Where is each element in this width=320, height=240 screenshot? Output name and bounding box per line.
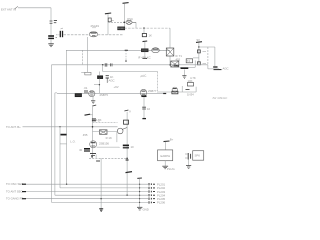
wire y84.7 stub [94, 84, 99, 86]
svg-text:IF 455 KC: IF 455 KC [138, 56, 151, 60]
svg-text:9V: 9V [197, 38, 201, 42]
label faint agc [140, 73, 147, 78]
svg-text:B+: B+ [170, 138, 174, 142]
dark diode blob detector [181, 67, 189, 69]
transistor Q6 [90, 141, 97, 148]
junction x127 row4 [126, 194, 128, 196]
wire C2 to ground [50, 39, 52, 43]
label above y122 wire [95, 118, 101, 122]
resistor R8 [75, 94, 81, 97]
capacitor C6 [84, 86, 88, 93]
wire x102.7 riser [102, 65, 104, 72]
wire y122.4 [93, 121, 118, 123]
power tap bar B4 [196, 38, 202, 42]
connector bars speaker [185, 153, 191, 160]
ground Q3 [91, 101, 95, 104]
blob below junction x127 [126, 159, 129, 161]
wire top horizontal [18, 7, 51, 9]
wire spk conn down [188, 160, 190, 166]
junction y28 [143, 27, 144, 28]
label Q4 [148, 89, 157, 93]
label osc text [83, 133, 88, 137]
wire row6 [52, 201, 149, 203]
wire q2 to T1 [160, 49, 171, 51]
driver box T3 [187, 76, 195, 86]
svg-text:455: 455 [83, 133, 88, 137]
wire q3 ground drop [92, 97, 94, 101]
cap bar below R3 [143, 57, 148, 59]
power tap bar B3 [143, 40, 148, 43]
ground earphone [162, 166, 168, 169]
label mid texts [109, 75, 119, 89]
wire antenna vertical [50, 8, 52, 20]
wire x144 down [143, 97, 145, 119]
dark tick on y50 line [125, 49, 128, 51]
ground detector [182, 76, 186, 79]
wire x101.1 vertical [100, 158, 102, 208]
svg-text:TO GANG FR: TO GANG FR [6, 197, 23, 201]
resistor R1 [108, 18, 114, 22]
svg-text:L.O.: L.O. [70, 140, 76, 144]
svg-text:TO OSC SEC: TO OSC SEC [6, 182, 23, 186]
wire y127 long [23, 126, 118, 128]
pin blob row3 [22, 191, 26, 193]
wire y57.9 left [193, 57, 199, 59]
wire x208 vertical [207, 47, 209, 65]
wire C3 to Q1 [64, 34, 89, 36]
svg-text:TO ANT. B+: TO ANT. B+ [6, 125, 21, 129]
wire mid y71.5 [103, 71, 158, 73]
wire row2 [60, 187, 148, 189]
elbow x54.9 row4 [54, 93, 56, 195]
power tap bar left of x92.5 [85, 114, 91, 115]
wire y28 row [117, 27, 170, 29]
capacitor C1 trimmer [50, 21, 57, 24]
elbow x60 row2 [59, 127, 61, 188]
junction blob x144 bottom [142, 118, 146, 120]
wire main row y64.8 [52, 64, 208, 66]
wire tap to box [165, 142, 167, 150]
wire y147.1 [97, 146, 120, 148]
wire right top elbow [169, 28, 171, 48]
resistor R11 [124, 120, 129, 124]
svg-text:2SB77: 2SB77 [148, 89, 157, 93]
capacitor blob on x92.5 [92, 119, 100, 123]
svg-text:JW 4394LF: JW 4394LF [212, 96, 228, 100]
wire det row y67.3 [180, 66, 196, 68]
junction right y47 [198, 46, 199, 47]
wire y131.6 [93, 131, 117, 133]
svg-text:2SB156: 2SB156 [99, 141, 109, 145]
svg-text:SPK: SPK [195, 154, 201, 158]
wire x126 stub [125, 50, 127, 61]
svg-text:AGC: AGC [223, 67, 229, 71]
electrolytic C7 [141, 95, 146, 97]
label Q1 [91, 24, 100, 28]
label top of connector bus [167, 167, 175, 171]
power tap bar B1 [105, 12, 111, 15]
wire Q1 to right [98, 34, 124, 36]
svg-text:10: 10 [147, 107, 151, 111]
svg-text:EARPH: EARPH [161, 154, 171, 158]
ground bus bottom [137, 207, 149, 211]
wire row1 [26, 183, 148, 185]
stub left of R6 [81, 71, 85, 73]
svg-text:V: V [129, 110, 131, 114]
tap mark x92.5 top [93, 105, 97, 106]
volume pot column top mark [124, 110, 131, 114]
svg-text:+9V: +9V [114, 85, 119, 89]
svg-text:GND: GND [143, 208, 149, 212]
label Q3 [100, 93, 109, 97]
power tap bus top [137, 177, 142, 179]
wire x99.4 down [98, 72, 100, 94]
osc transformer X box [100, 130, 108, 135]
svg-text:1N34: 1N34 [187, 93, 194, 97]
capacitor C5 [106, 76, 109, 83]
pin row2 [149, 187, 155, 189]
wire det riser x195 [194, 61, 196, 68]
svg-text:OSC: OSC [127, 17, 133, 21]
wire row4 [55, 194, 148, 196]
wire x116.9 drop [116, 132, 118, 143]
wire box top y50.3 [66, 49, 170, 51]
ground symbol antenna [48, 44, 54, 47]
connector pins column [149, 183, 155, 204]
elbow x66.6 to row1 [66, 144, 68, 184]
svg-text:.01: .01 [84, 86, 88, 90]
svg-text:R 1K: R 1K [95, 118, 101, 122]
label Q6 [99, 141, 109, 145]
junction dot x126 [125, 60, 127, 62]
label L1 [127, 17, 133, 21]
cap C8 marks [142, 107, 150, 111]
svg-text:R 1K: R 1K [106, 136, 112, 140]
transistor Q5 [172, 87, 177, 92]
wire box to ground [164, 161, 166, 166]
capacitor stub below R3 [144, 52, 146, 58]
wire row5 [26, 198, 148, 200]
transistor Q4 [140, 89, 147, 96]
wire tap3 down [144, 42, 146, 51]
capacitor C2 electrolytic [48, 36, 57, 38]
svg-text:1K: 1K [149, 33, 153, 37]
elbow x51.5 row6 [51, 65, 53, 203]
wire bias y22.3 [108, 21, 124, 23]
box right edge x157.5 [157, 72, 159, 94]
T2 label box [186, 59, 192, 63]
electrolytic marks on row [105, 63, 112, 66]
label T2 top [138, 56, 151, 60]
label LO marks [70, 140, 76, 144]
cluster below q6 [90, 154, 96, 156]
dark diode cluster right [213, 67, 228, 71]
junction y127 x92.5 [92, 126, 94, 128]
junction x99.4 [99, 84, 100, 85]
wire box x82.5 [82, 50, 84, 65]
dark blob x63 [61, 134, 67, 136]
wire y93.3 row [55, 92, 166, 94]
svg-text:AGC: AGC [109, 79, 115, 83]
ground speaker [186, 166, 191, 169]
svg-text:PLUG: PLUG [167, 167, 175, 171]
wire tap1 down [107, 14, 109, 35]
transistor Q2 [152, 48, 160, 53]
wire x215 down [214, 47, 216, 66]
pin row1 [149, 183, 155, 185]
box left vertical x66.6 [66, 50, 68, 144]
svg-text:2SA49: 2SA49 [91, 24, 100, 28]
svg-text:TO ANT SEC: TO ANT SEC [6, 189, 23, 193]
wire L1 down [135, 22, 137, 28]
wire y47 right [199, 46, 215, 48]
node TO-ANT label [6, 125, 21, 129]
stub y143.9 [60, 143, 67, 145]
resistor R2 dark [118, 27, 125, 30]
audio out wire y92 [158, 91, 196, 93]
junction osc [124, 22, 126, 24]
wire drop x144 [143, 28, 145, 33]
junction x101.1 row5 [100, 198, 101, 199]
wire Q1 emitter down [87, 37, 89, 72]
pin blob row5 [22, 198, 26, 200]
pin blob row1 [22, 183, 26, 185]
power tap bar x127 [126, 172, 133, 173]
electrolytic C9 [79, 148, 90, 152]
wire below C1 [50, 24, 52, 35]
IF transformer T2 box [171, 61, 179, 67]
resistor R3 [142, 49, 149, 52]
pin row6 [149, 201, 155, 203]
svg-text:AGC: AGC [140, 73, 147, 78]
power tap above earphone box [164, 138, 174, 142]
svg-text:PL206: PL206 [157, 201, 166, 205]
svg-text:4.7K: 4.7K [190, 76, 196, 80]
resistor R5 [198, 62, 207, 65]
wire converter input stub [56, 34, 59, 36]
junction T1 row [169, 64, 171, 66]
wire x119.2 drop [118, 146, 120, 149]
resistor R10 box [172, 91, 178, 94]
transistor Q3 [89, 91, 95, 97]
pin row5 [149, 198, 155, 200]
wire q6 emitter down [95, 155, 97, 159]
potentiometer VR1 [117, 128, 127, 134]
oscillator coil L1 [126, 20, 136, 24]
svg-text:EXT ANT IN: EXT ANT IN [1, 8, 16, 12]
transistor Q1 converter [89, 32, 97, 37]
junction y127 x60 [59, 126, 60, 127]
wire x127 vertical [126, 112, 128, 195]
junction dots on bus [139, 184, 140, 203]
dark tick end of row [163, 93, 166, 95]
node label TO row5 [6, 197, 23, 201]
node RF-IN label [1, 8, 16, 12]
electrolytic C10 [123, 145, 134, 149]
pin row3 [149, 190, 155, 192]
node label TO row1 [6, 182, 23, 186]
component small y161 [96, 160, 100, 162]
junction x127 audio [126, 158, 128, 160]
wire tap4 down [198, 43, 200, 65]
antenna tick [15, 6, 19, 9]
wire tap2 down [123, 4, 125, 29]
label R 1k [106, 136, 112, 140]
wire row3 [26, 191, 148, 193]
IF transformer T1 box [166, 48, 174, 56]
junction x92.5 bottom [91, 156, 93, 158]
junction dot x102.7 [102, 64, 104, 66]
svg-text:2SB75: 2SB75 [100, 93, 109, 97]
wire audio y158.3 [89, 157, 127, 159]
resistor R7 dark [98, 76, 103, 79]
watermark text [212, 96, 228, 100]
resistor R6 [85, 72, 91, 75]
wire detector out y68.9 [208, 65, 219, 69]
riser x182.2 [181, 86, 183, 92]
label T1 [176, 54, 183, 61]
svg-text:T2: T2 [187, 59, 191, 63]
riser x196 [195, 87, 197, 92]
stub tap to x92.5 [90, 114, 92, 116]
component small box x144 [142, 33, 152, 37]
wire x92.5 long vertical [92, 105, 94, 158]
capacitor C3 series [60, 28, 63, 37]
svg-text:10: 10 [131, 145, 135, 149]
connector bus vertical [139, 178, 141, 207]
pin row4 [149, 194, 155, 196]
pin labels [157, 182, 166, 204]
wire T1 bottom to row [169, 56, 171, 65]
wire det gnd drop [183, 70, 185, 76]
resistor R4 [198, 50, 207, 53]
ground x101.1 bottom [99, 209, 103, 212]
box earphone jack [158, 150, 173, 161]
box speaker [193, 151, 204, 161]
svg-text:30: 30 [79, 148, 83, 152]
node label TO row3 [6, 189, 23, 193]
diode D2 marks [186, 90, 195, 97]
power tap bar B2 [123, 2, 129, 5]
